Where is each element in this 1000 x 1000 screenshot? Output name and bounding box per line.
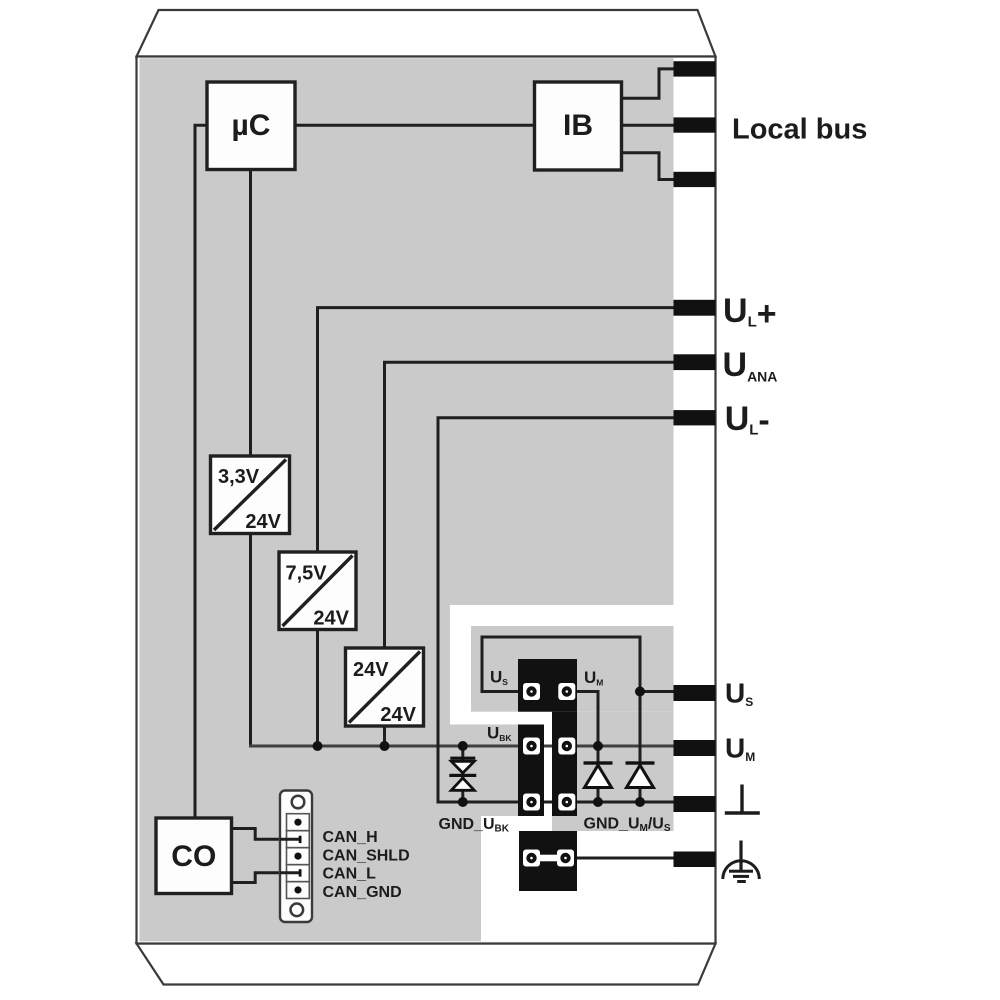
module housing top face: [137, 10, 716, 57]
interbus protocol box IB: [535, 82, 622, 170]
svg-text:US: US: [725, 677, 753, 709]
wire: IB lower stub to local bus 3: [622, 153, 674, 180]
svg-text:Local bus: Local bus: [732, 113, 867, 145]
DC/DC converter 7.5V/24V: [279, 552, 356, 630]
junction node 7.5V/bus: [313, 741, 323, 751]
earth terminal: [674, 852, 716, 868]
DC/DC converter 3.3V/24V: [211, 456, 290, 534]
wire: CO lower to CAN_L pin: [232, 873, 301, 883]
CAN connector body: [280, 791, 312, 923]
bidirectional zener diode: [449, 757, 476, 791]
wire: 7.5V converter to bus: [316, 630, 319, 747]
CANopen box CO: [156, 818, 232, 894]
junction node D1/bus: [593, 741, 603, 751]
contact US left: [523, 683, 540, 700]
wire: zener branch: [461, 746, 464, 802]
jumper block left column: [518, 725, 544, 817]
svg-text:CAN_GND: CAN_GND: [323, 884, 402, 901]
DC/DC converter 24V/24V: [346, 648, 424, 726]
wire: US stub to terminal: [640, 690, 674, 693]
gray panel A (jumper top area): [471, 626, 674, 712]
UL+ terminal: [674, 300, 716, 316]
wire: UM contact link down to bus: [567, 692, 598, 747]
contact GND right bottom: [558, 794, 575, 811]
UL- terminal: [674, 410, 716, 425]
svg-text:UANA: UANA: [723, 346, 778, 385]
wire: UL- line down and GND_UBK line: [438, 418, 674, 802]
wire: suppressor diode 2 branch: [639, 692, 642, 803]
junction node D2/GND: [635, 797, 645, 807]
svg-text:CAN_L: CAN_L: [323, 866, 377, 883]
wire: 24V converter to bus: [383, 726, 386, 746]
module housing bottom face: [137, 944, 716, 985]
svg-text:7,5V: 7,5V: [286, 563, 328, 585]
earth symbol: [723, 841, 760, 884]
wire: main UM bus horizontal: [249, 745, 674, 748]
gray panel C (zener area): [450, 725, 519, 817]
contact UBK left middle: [523, 738, 540, 755]
contact GND left bottom: [523, 794, 540, 811]
GND terminal: [674, 796, 716, 812]
GND symbol: [725, 785, 760, 814]
wire: CO upper to CAN_H pin: [232, 829, 301, 840]
svg-text:CO: CO: [171, 840, 216, 873]
junction node D1/GND: [593, 797, 603, 807]
local bus terminal 1: [674, 61, 716, 76]
local bus terminal 2: [674, 117, 716, 132]
svg-text:CAN_H: CAN_H: [323, 829, 378, 846]
suppressor diode D2: [626, 761, 655, 787]
junction node zener/GND: [458, 797, 468, 807]
svg-text:CAN_SHLD: CAN_SHLD: [323, 848, 410, 865]
wire: microcontroller to IB: [295, 124, 535, 127]
svg-text:24V: 24V: [353, 659, 389, 681]
UM terminal: [674, 740, 716, 756]
wire: microcontroller left down to CO: [195, 125, 207, 818]
junction node zener/bus: [458, 741, 468, 751]
wire: IB upper stub to local bus 1: [622, 69, 674, 98]
wire: US loop over jumper: [482, 637, 640, 692]
wire: microcontroller bottom to 3.3V converter: [249, 170, 252, 457]
wire: 3.3V converter down to bus corner: [249, 534, 252, 748]
gray panel C2 (bottom-left strip): [450, 816, 481, 941]
wire: suppressor diode 1 branch: [597, 746, 600, 802]
wire: UL+ line to 7.5V converter: [318, 308, 674, 552]
US terminal: [674, 685, 716, 701]
svg-text:24V: 24V: [380, 704, 416, 726]
contact UM bus middle: [558, 738, 575, 755]
junction node 24V/bus: [380, 741, 390, 751]
UANA terminal: [674, 354, 716, 370]
module housing front face: [137, 57, 716, 944]
svg-text:24V: 24V: [245, 511, 281, 533]
main gray board area: [140, 58, 674, 941]
wire: UANA line to 24V converter: [385, 362, 674, 648]
svg-text:IB: IB: [563, 109, 593, 142]
svg-text:UL+: UL+: [723, 292, 777, 333]
earth jumper contacts with bridge: [523, 850, 574, 867]
wire: earth jumper to earth terminal: [566, 857, 674, 860]
jumper block right column: [552, 712, 577, 816]
junction node US line: [635, 687, 645, 697]
svg-text:UL-: UL-: [725, 400, 770, 440]
svg-text:24V: 24V: [313, 608, 349, 630]
svg-text:3,3V: 3,3V: [218, 466, 260, 488]
gray panel B (diode area): [552, 712, 674, 831]
wire: IB middle stub to local bus 2: [622, 124, 674, 127]
microcontroller box uC: [207, 82, 295, 170]
svg-text:GND_UM/US: GND_UM/US: [584, 816, 671, 835]
suppressor diode D1: [584, 761, 613, 787]
white cutout region bottom right: [450, 605, 674, 941]
earth jumper block: [519, 831, 577, 891]
local bus terminal 3: [674, 172, 716, 187]
jumper block top: [518, 659, 577, 712]
svg-text:µC: µC: [232, 109, 271, 142]
svg-text:UM: UM: [725, 732, 755, 764]
contact UM right top: [558, 683, 575, 700]
